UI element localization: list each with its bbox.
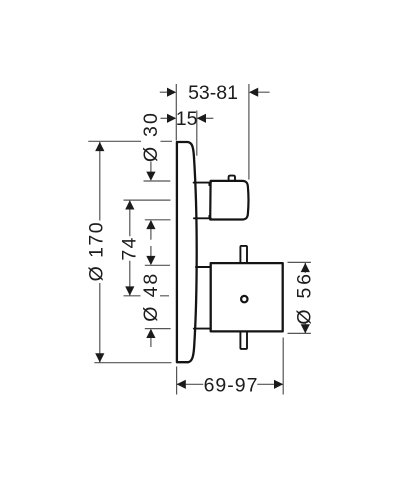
arrowhead O56 bottom	[301, 324, 310, 333]
extension line left of 53-81 / 15 (x=176)	[175, 84, 177, 141]
extension line handle axis for 74 (y=200)	[124, 199, 171, 201]
svg-text:Ø 48: Ø 48	[140, 272, 162, 322]
extension line right of 15 (x=197)	[196, 111, 198, 156]
extension line plate bottom (y=363)	[94, 362, 171, 364]
svg-text:Ø 170: Ø 170	[86, 221, 108, 281]
dimension tail O30 lower arrow	[150, 229, 152, 240]
valve top tab	[240, 246, 247, 262]
dimension tail O48 upper arrow	[150, 254, 152, 257]
extension line handle bottom (y=220)	[145, 219, 171, 221]
svg-text:74: 74	[118, 236, 140, 260]
text mask O30	[141, 110, 161, 161]
dimension dash between O30 and O48	[150, 246, 152, 254]
arrowhead O48 upper (points down)	[146, 256, 155, 265]
handle body	[210, 181, 248, 220]
extension line right of 53-81 (x=249)	[248, 84, 250, 180]
valve flange bottom line	[194, 328, 211, 330]
extension line valve axis for 74 (y=296)	[124, 295, 170, 297]
extension line plate top (y=141)	[88, 140, 172, 142]
dimension line 69-97 horizontal	[177, 383, 284, 385]
arrowhead 15 left	[167, 114, 176, 123]
arrowhead O170 bottom	[95, 353, 104, 362]
escutcheon plate side view	[177, 142, 197, 362]
dimension segment O30 above upper arrow	[150, 162, 152, 173]
arrowhead O30 upper (points down)	[146, 172, 155, 181]
extension line left of 69-97 (x=177)	[176, 367, 178, 395]
text mask O56	[293, 273, 312, 324]
arrowhead 15 right	[197, 114, 206, 123]
extension line flange top for O48 (y=265)	[145, 264, 170, 266]
dimension tail 15 left	[160, 117, 175, 119]
dimension tail O48 lower arrow	[150, 338, 152, 347]
arrowhead 53-81 right	[249, 88, 258, 97]
svg-text:Ø 30: Ø 30	[140, 111, 162, 162]
arrowhead O56 top	[301, 263, 310, 272]
extension line handle top (y=181)	[144, 180, 171, 182]
extension line flange bottom for O48 (y=329)	[145, 328, 171, 330]
handle sleeve bottom line	[194, 216, 211, 219]
text mask O48	[141, 273, 161, 322]
svg-text:15: 15	[176, 108, 198, 130]
text mask O170	[85, 221, 104, 284]
arrowhead O48 lower (points up)	[146, 329, 155, 338]
extension line right of 69-97 (x=283)	[282, 338, 284, 395]
arrowhead 74 bottom	[125, 286, 134, 295]
valve body square	[211, 263, 283, 331]
arrowhead O30 lower (points up)	[146, 220, 155, 229]
valve center screw ring	[241, 296, 247, 302]
dimension line O170 vertical	[99, 142, 101, 363]
handle sleeve top line	[194, 183, 211, 186]
svg-text:Ø 56: Ø 56	[294, 271, 316, 324]
arrowhead 69-97 right	[274, 380, 283, 389]
dimension tail 53-81 right	[250, 91, 270, 93]
text mask 74	[120, 236, 140, 261]
arrowhead 69-97 left	[177, 380, 186, 389]
dimension line O56 vertical	[304, 263, 306, 334]
arrowhead O170 top	[95, 142, 104, 151]
svg-text:53-81: 53-81	[188, 82, 238, 104]
dimension line 74 vertical	[129, 200, 131, 295]
dimension tail 53-81 left	[160, 91, 175, 93]
text mask 69-97	[203, 375, 257, 394]
extension line valve top for O56 (y=262)	[288, 261, 311, 263]
arrowhead 74 top	[125, 200, 134, 209]
valve flange top line	[196, 266, 211, 268]
arrowhead 53-81 left	[167, 88, 176, 97]
handle top button tab	[229, 176, 235, 181]
valve bottom tab	[240, 333, 247, 349]
svg-text:69-97: 69-97	[204, 374, 259, 396]
dimension tail 15 right	[198, 117, 214, 119]
extension line valve bottom for O56 (y=333)	[288, 332, 311, 334]
